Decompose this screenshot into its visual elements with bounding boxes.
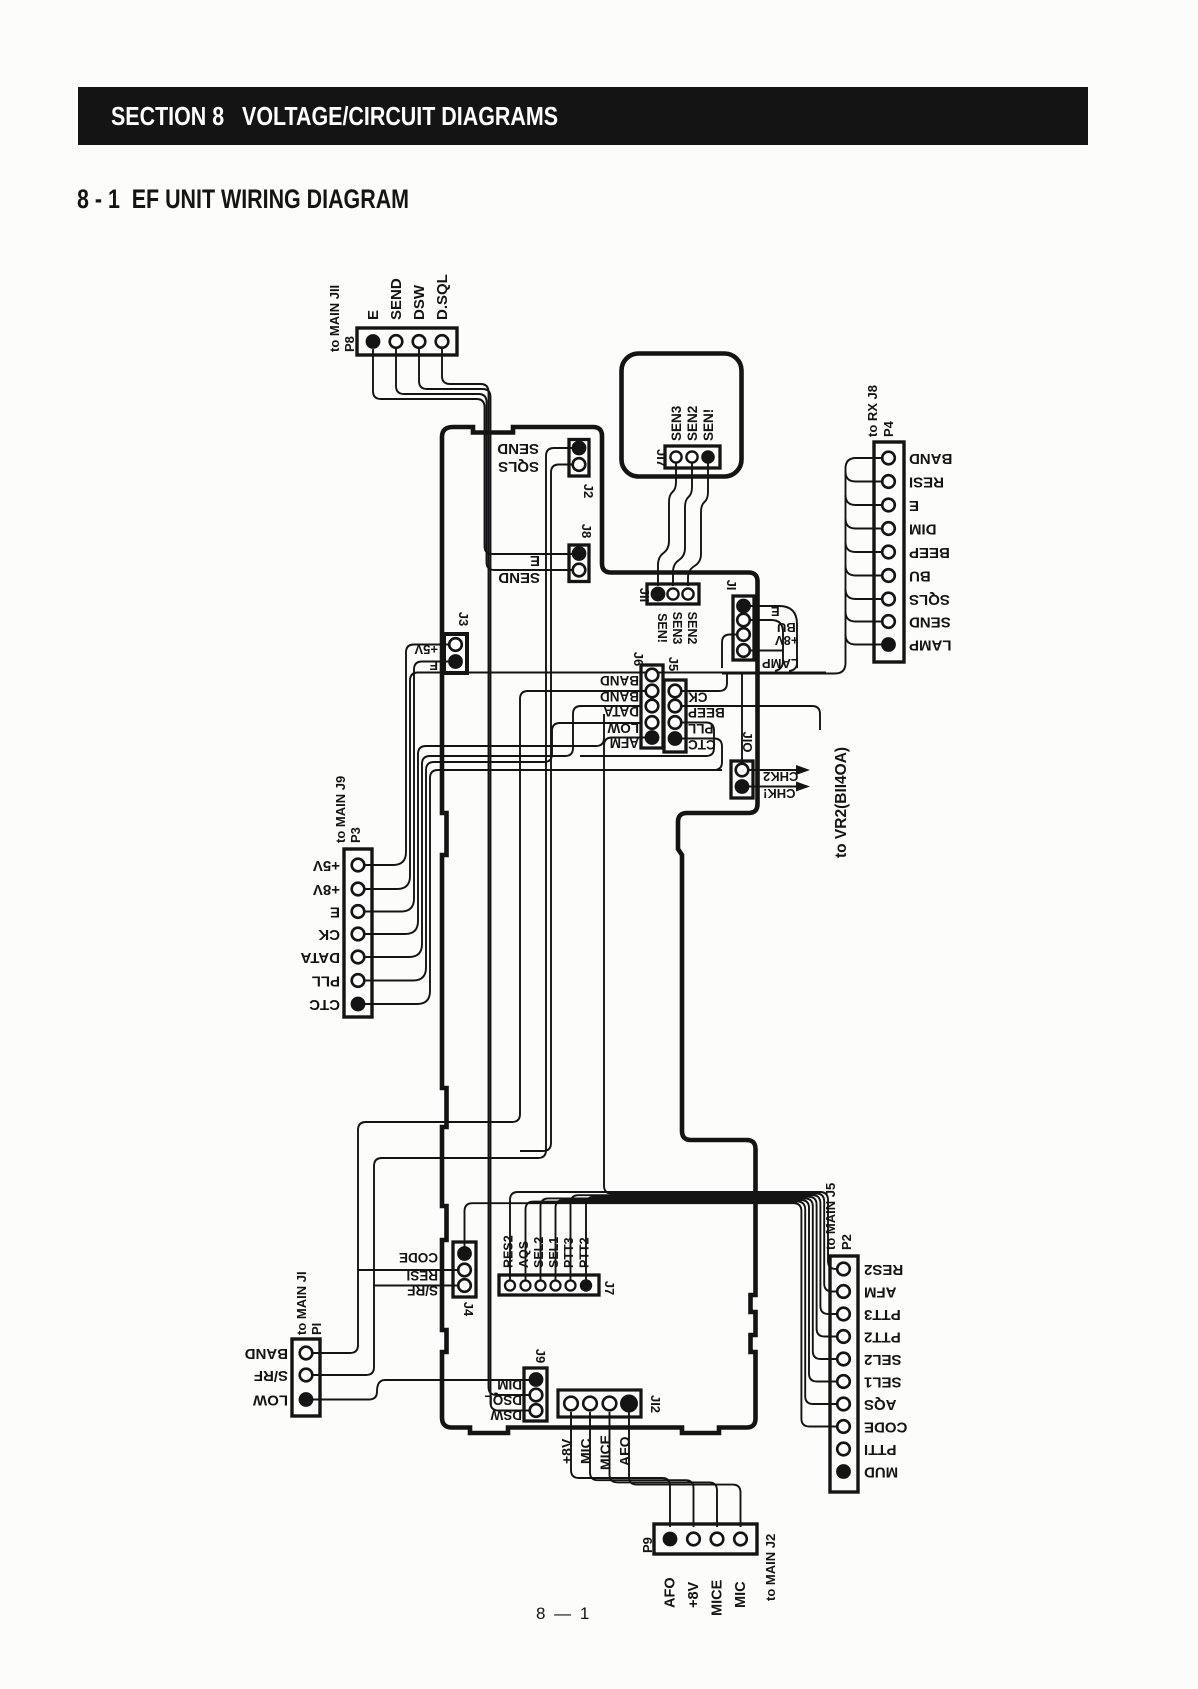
svg-text:JII: JII — [637, 588, 652, 602]
svg-text:to MAIN J9: to MAIN J9 — [333, 776, 348, 843]
svg-text:to MAIN JII: to MAIN JII — [327, 285, 342, 352]
svg-text:J4: J4 — [461, 1302, 476, 1317]
wire J3.E to P3.E — [364, 662, 450, 912]
EF unit main board outline — [442, 427, 758, 1433]
connector J8 — [569, 545, 589, 582]
wire J1 pin4 stub — [749, 650, 783, 652]
svg-text:8 — 1: 8 — 1 — [536, 1604, 591, 1623]
svg-text:SEN2: SEN2 — [685, 406, 700, 441]
svg-text:CODE: CODE — [864, 1419, 907, 1436]
svg-text:PLL: PLL — [312, 973, 340, 990]
svg-text:CTC: CTC — [309, 996, 340, 1013]
svg-text:RES2: RES2 — [864, 1261, 903, 1278]
svg-text:CODE: CODE — [399, 1250, 438, 1265]
svg-text:AFO: AFO — [617, 1436, 633, 1466]
svg-text:+8V: +8V — [775, 633, 799, 648]
svg-text:SEND: SEND — [909, 614, 951, 631]
svg-text:P3: P3 — [348, 827, 363, 843]
svg-text:SEN3: SEN3 — [670, 612, 684, 645]
svg-text:PTT3: PTT3 — [562, 1237, 576, 1268]
wire J1 pin3 to +8V run — [722, 635, 737, 669]
svg-text:SQLS: SQLS — [498, 458, 539, 475]
svg-text:BEEP: BEEP — [909, 544, 950, 561]
svg-text:SEND: SEND — [498, 569, 540, 586]
svg-text:P2: P2 — [839, 1234, 854, 1250]
wire J5.BEEP run right — [681, 706, 820, 730]
wire J7.SEL2 to P2 — [541, 1198, 839, 1359]
svg-text:to RX J8: to RX J8 — [865, 385, 880, 437]
svg-text:J7: J7 — [602, 1281, 617, 1295]
sensor sub-board outline (top right) — [622, 354, 742, 477]
wire J6.BAND2 long run to P1.BAND — [312, 691, 646, 1353]
svg-text:SQLS: SQLS — [909, 591, 950, 608]
svg-text:D.SQL: D.SQL — [434, 274, 451, 320]
connector J12 — [558, 1390, 641, 1417]
wire J12 pin4 to P9 pin4 — [629, 1412, 741, 1527]
svg-text:SECTION 8 VOLTAGE/CIRCUIT D: SECTION 8 VOLTAGE/CIRCUIT DIAGRAMS — [111, 101, 558, 131]
connector J3 — [444, 634, 467, 673]
svg-text:SEN!: SEN! — [701, 409, 716, 441]
wire J1 pin2 down to bundle — [749, 620, 783, 671]
wire J7.AQS to P2 — [526, 1202, 839, 1404]
connector J5 — [664, 680, 686, 752]
connector P2 (to MAIN J5) — [830, 1256, 858, 1492]
connector J4 — [453, 1242, 476, 1297]
svg-text:JI7: JI7 — [654, 449, 669, 467]
svg-text:BAND: BAND — [909, 450, 952, 467]
svg-text:SEND: SEND — [388, 278, 405, 320]
svg-text:DIM: DIM — [909, 521, 937, 538]
svg-text:SEN3: SEN3 — [669, 405, 684, 441]
wire J4.S/RF branch — [374, 1285, 458, 1287]
svg-text:BU: BU — [909, 568, 931, 585]
connector J17 — [665, 446, 720, 468]
svg-text:+5V: +5V — [313, 857, 340, 874]
svg-text:MICE: MICE — [597, 1435, 613, 1470]
wire J7.RES2 to P2 — [510, 1192, 838, 1280]
wire J4.CODE to P2.CODE — [465, 1203, 839, 1426]
wire feed J10 from LAMP run — [741, 673, 743, 762]
svg-text:DSW: DSW — [490, 1408, 522, 1423]
wire P8.D.SQL down to J9 pin DSQL — [442, 349, 529, 1395]
svg-text:MICE: MICE — [710, 1579, 726, 1616]
svg-text:RES2: RES2 — [502, 1235, 516, 1268]
wire P3.CTC to J5.CTC — [364, 770, 722, 1004]
svg-text:E: E — [530, 552, 540, 569]
svg-text:E: E — [909, 497, 919, 514]
wire J2.SQLS down — [520, 465, 573, 1152]
svg-text:J3: J3 — [456, 612, 471, 626]
svg-text:E: E — [330, 904, 340, 921]
svg-text:P4: P4 — [881, 420, 896, 437]
svg-text:to MAIN J2: to MAIN J2 — [763, 1534, 778, 1601]
svg-text:BAND: BAND — [245, 1345, 288, 1362]
wire P4 pin branch y=644.5 — [846, 635, 884, 645]
wire J10 pin1 CHK2 arrow — [748, 769, 797, 771]
svg-text:J9: J9 — [533, 1349, 548, 1363]
svg-text:AFM: AFM — [864, 1284, 897, 1301]
wire J7.SEL1 to P2 — [556, 1200, 839, 1382]
svg-text:PTT2: PTT2 — [864, 1329, 901, 1346]
connector J10 — [731, 761, 753, 798]
wire J7.PTT3 to P2 — [571, 1195, 839, 1314]
svg-text:PI: PI — [309, 1323, 324, 1335]
svg-text:PTTI: PTTI — [864, 1441, 897, 1458]
wire P4 bundle down to LAMP run — [722, 458, 883, 674]
wire P8.E to J8 pin E — [373, 349, 573, 554]
wire P4 pin branch y=552 — [846, 542, 884, 552]
svg-text:J8: J8 — [579, 524, 594, 538]
connector J1 — [733, 596, 754, 660]
svg-text:SEN2: SEN2 — [685, 612, 699, 645]
connector J9 — [524, 1368, 547, 1421]
svg-text:MUD: MUD — [864, 1464, 898, 1481]
connector P9 (to MAIN J2) — [654, 1524, 757, 1554]
svg-text:LAMP: LAMP — [909, 637, 952, 654]
svg-text:CHK!: CHK! — [763, 786, 796, 801]
wire P8.DSW down to J9 pin DSW — [419, 349, 529, 1411]
svg-text:JI2: JI2 — [648, 1395, 663, 1413]
wire J3.+5V to P3.+5V — [364, 645, 450, 866]
svg-text:SEND: SEND — [497, 440, 539, 457]
wire J17 pin2 to J11 pin2 — [673, 463, 692, 586]
connector J2 — [569, 440, 589, 477]
wire J7.PTT2 to P2 — [586, 1197, 838, 1337]
header bar: SECTION 8 VOLTAGE/CIRCUIT DIAGRAMS — [78, 87, 1088, 145]
svg-text:+8V: +8V — [559, 1438, 575, 1464]
wire P3.PLL to J6.LOW run — [364, 723, 640, 981]
wire P3.CK toward J5/J6 — [364, 714, 604, 934]
wire P4 pin branch y=481.5 — [846, 472, 884, 482]
wire P4 pin branch y=528.5 — [846, 519, 884, 529]
wire P8.SEND to J8 pin SEND — [396, 349, 573, 570]
svg-text:to VR2(BII4OA): to VR2(BII4OA) — [833, 747, 850, 858]
svg-text:PTT3: PTT3 — [864, 1306, 901, 1323]
wire J1 pin1 down to bundle — [749, 606, 797, 671]
wire J4.RESI branch — [358, 1269, 458, 1271]
svg-text:to MAIN JI: to MAIN JI — [294, 1271, 309, 1335]
svg-text:P9: P9 — [640, 1537, 655, 1553]
svg-text:MIC: MIC — [733, 1581, 749, 1608]
svg-text:P8: P8 — [342, 336, 357, 352]
svg-text:J6: J6 — [631, 652, 646, 666]
svg-text:SEL2: SEL2 — [532, 1237, 546, 1268]
svg-text:DATA: DATA — [603, 704, 639, 719]
wire J12 pin2 to P9 pin2 — [590, 1412, 694, 1527]
wire P3.+8V long run to J1 area — [364, 673, 826, 890]
svg-text:LOW: LOW — [252, 1392, 288, 1409]
wire J2.SEND down-left to P1 area — [312, 448, 573, 1375]
wire P4 pin branch y=621.5 — [846, 612, 884, 622]
svg-text:RESI: RESI — [909, 474, 944, 491]
wire J6.AFM down to P2 bus — [604, 738, 838, 1292]
svg-text:8 - 1 EF UNIT WIRING DIAGRAM: 8 - 1 EF UNIT WIRING DIAGRAM — [77, 184, 409, 214]
svg-text:E: E — [429, 658, 438, 673]
wire P3.DATA to J6.DATA — [364, 706, 640, 957]
wire P4 pin branch y=505 — [846, 495, 884, 505]
wire J12 pin3 to P9 pin3 — [610, 1412, 718, 1527]
svg-text:+8V: +8V — [686, 1581, 702, 1608]
svg-text:SEN!: SEN! — [655, 613, 669, 643]
svg-text:MIC: MIC — [578, 1438, 594, 1464]
svg-text:DSW: DSW — [411, 284, 428, 320]
connector P1 (to MAIN J1) — [292, 1339, 320, 1416]
wire P1.LOW up to J9.DIM — [312, 1380, 529, 1400]
wire P4 pin branch y=599 — [846, 589, 884, 599]
svg-text:SEL1: SEL1 — [547, 1237, 561, 1268]
svg-text:AQS: AQS — [864, 1396, 897, 1413]
svg-text:AFO: AFO — [663, 1577, 679, 1608]
svg-text:+8V: +8V — [313, 881, 340, 898]
svg-text:SEL2: SEL2 — [864, 1351, 902, 1368]
connector J7 — [499, 1275, 599, 1295]
svg-text:E: E — [365, 310, 382, 320]
svg-text:S/RF: S/RF — [254, 1367, 288, 1384]
wire J5.CK stub to +8V run — [681, 674, 727, 691]
svg-text:CHK2: CHK2 — [763, 769, 798, 784]
connector P3 (to MAIN J9) — [344, 849, 372, 1017]
svg-text:DATA: DATA — [300, 949, 340, 966]
wire J5.CTC riser — [681, 739, 722, 771]
svg-text:J2: J2 — [581, 484, 596, 498]
svg-text:DSQL: DSQL — [484, 1393, 522, 1408]
connector J11 — [647, 584, 699, 604]
connector J6 — [641, 665, 663, 748]
svg-text:BEEP: BEEP — [688, 705, 725, 720]
connector P4 (to RX J8) — [874, 442, 904, 662]
svg-text:BAND: BAND — [600, 673, 639, 688]
wire J17 pin1 to J11 pin1 — [658, 463, 676, 586]
svg-text:AQS: AQS — [517, 1241, 531, 1268]
wire J12 pin1 to P9 pin1 — [571, 1412, 670, 1527]
wire J5.PLL run down — [580, 723, 714, 757]
wire P4 pin branch y=575.5 — [846, 566, 884, 576]
wire J10 pin2 CHK1 arrow — [748, 786, 797, 788]
page title: 8-1 EF UNIT WIRING DIAGRAM — [77, 184, 409, 214]
wire J17 pin3 to J11 pin3 — [688, 463, 708, 586]
connector P8 (to MAIN J11) — [357, 328, 457, 355]
svg-text:J5: J5 — [666, 657, 681, 671]
svg-text:LOW: LOW — [607, 721, 639, 736]
svg-text:PTT2: PTT2 — [578, 1237, 592, 1268]
svg-text:DIM: DIM — [497, 1377, 522, 1392]
svg-text:CK: CK — [318, 926, 340, 943]
svg-text:SEL1: SEL1 — [864, 1374, 902, 1391]
svg-text:JI: JI — [724, 580, 739, 591]
